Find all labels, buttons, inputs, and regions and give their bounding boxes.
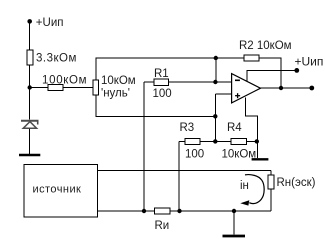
wire — [233, 211, 235, 235]
wire source top — [98, 169, 271, 171]
potentiometer 10кОм нуль — [93, 80, 99, 95]
wire R3 row — [179, 140, 185, 142]
wire — [256, 141, 258, 158]
wire V+ pin — [247, 70, 297, 81]
svg-text:Rи: Rи — [155, 220, 170, 232]
resistor Rн(эск) — [268, 175, 274, 189]
terminal output — [309, 86, 314, 91]
svg-text:iн: iн — [240, 180, 249, 192]
node — [142, 209, 146, 213]
resistor R1 — [154, 79, 169, 86]
svg-text:100кОм: 100кОм — [42, 75, 87, 87]
svg-text:'нуль': 'нуль' — [101, 88, 130, 100]
node R4 ground — [255, 139, 259, 143]
svg-text:R1: R1 — [154, 68, 169, 80]
node R3-R4 — [213, 139, 217, 143]
wire — [63, 87, 93, 89]
wire output — [261, 87, 312, 89]
wire — [214, 94, 216, 141]
wire V- pin — [245, 98, 257, 142]
resistor R2 — [244, 55, 259, 61]
ground (bottom) — [223, 235, 246, 238]
node ground tap — [232, 209, 236, 213]
svg-text:+Uип: +Uип — [295, 55, 324, 69]
node output feedback — [279, 86, 283, 90]
svg-text:3.3кОм: 3.3кОм — [36, 53, 77, 65]
svg-text:R4: R4 — [227, 122, 242, 134]
wire — [259, 58, 281, 88]
resistor R3 — [185, 138, 200, 144]
svg-text:R3: R3 — [180, 122, 195, 134]
resistor 3.3кОм — [27, 50, 33, 65]
resistor Rи — [155, 208, 171, 214]
svg-text:R2 10кОм: R2 10кОм — [239, 40, 292, 52]
node junction — [28, 85, 32, 89]
wire — [144, 81, 154, 83]
svg-text:Rн(эск): Rн(эск) — [277, 177, 316, 189]
wire — [169, 81, 232, 83]
terminal +Uип right — [294, 68, 299, 73]
wire — [216, 57, 244, 59]
node — [177, 209, 181, 213]
svg-text:100: 100 — [153, 88, 172, 100]
terminal +Uип top-left — [27, 19, 32, 24]
wire source bottom — [98, 210, 271, 212]
wire — [29, 88, 31, 120]
wire — [178, 141, 180, 211]
svg-text:10кОм: 10кОм — [222, 149, 257, 161]
svg-text:+Uип: +Uип — [36, 17, 64, 29]
wire frame bottom of potentiometer — [96, 95, 215, 116]
resistor 100кОм — [48, 85, 63, 91]
wire — [270, 170, 272, 174]
op-amp U1 — [232, 74, 261, 103]
wire — [270, 189, 272, 211]
node inverting input — [213, 80, 217, 84]
ground (op-amp V-) — [252, 158, 269, 160]
wire non-inverting input — [215, 93, 231, 95]
wire — [30, 87, 49, 89]
wire — [200, 140, 231, 142]
box источник — [24, 164, 98, 217]
zener diode VD1 — [21, 121, 39, 154]
ground (diode) — [19, 154, 40, 157]
node frame to R3/R4 — [213, 114, 217, 118]
svg-text:10кОм: 10кОм — [101, 75, 136, 87]
wire — [29, 65, 31, 88]
node R2 tap — [214, 56, 218, 60]
wire — [247, 140, 257, 142]
wire frame top of potentiometer — [96, 58, 216, 80]
svg-text:источник: источник — [33, 184, 82, 196]
resistor R4 — [231, 138, 247, 144]
wire inverting branch — [215, 58, 217, 82]
wire — [143, 82, 145, 211]
svg-text:100: 100 — [185, 149, 204, 161]
wire — [29, 21, 31, 50]
current loop iн — [240, 175, 264, 206]
